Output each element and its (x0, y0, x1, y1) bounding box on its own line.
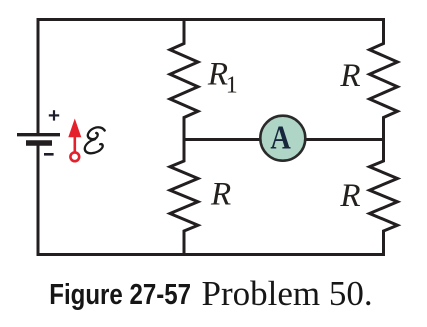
battery B plate long (+) (17, 133, 60, 136)
ammeter A (circle) (260, 116, 305, 161)
svg-text:R: R (210, 177, 231, 213)
wire left upper (37, 18, 40, 134)
svg-text:R: R (339, 178, 360, 214)
wire bottom (37, 253, 386, 256)
svg-text:A: A (270, 118, 291, 156)
wire left lower (37, 143, 40, 256)
wire middle left (node to ammeter) (184, 138, 262, 141)
wire top (37, 18, 386, 21)
svg-text:Figure 27-57: Figure 27-57 (49, 278, 191, 311)
svg-text:Problem 50.: Problem 50. (202, 274, 373, 313)
label plus sign (49, 110, 59, 120)
resistor R (right branch upper) and resistor R (right branch lower) (370, 18, 398, 255)
wire middle right (ammeter to right branch) (304, 138, 384, 141)
label script-E emf (84, 127, 105, 153)
emf arrow (red) (68, 119, 81, 162)
svg-text:1: 1 (226, 73, 238, 99)
svg-text:R: R (339, 58, 360, 94)
battery B plate short (-) (26, 140, 52, 146)
resistor R1 (middle branch upper) and resistor R (middle branch lower) (170, 18, 198, 255)
label minus sign (44, 153, 54, 156)
